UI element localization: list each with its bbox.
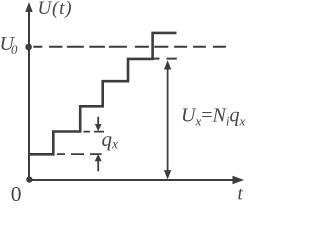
x-axis arrowhead xyxy=(233,176,245,185)
q_x upper arrow (points down to step2 level) xyxy=(95,117,102,132)
y-axis xyxy=(28,9,30,180)
staircase waveform xyxy=(29,33,177,154)
svg-text:Ux=Niqx: Ux=Niqx xyxy=(181,104,245,128)
x-axis xyxy=(29,179,235,181)
U0 dashed level line xyxy=(33,46,226,48)
svg-text:t: t xyxy=(238,184,244,203)
q_x lower arrow (points up to step1 level) xyxy=(95,154,102,171)
U_x big double arrow xyxy=(164,60,171,179)
U0 dot on y-axis xyxy=(25,44,32,51)
y-axis arrowhead xyxy=(25,2,32,12)
dashed extension of step1 level xyxy=(57,153,102,155)
svg-text:0: 0 xyxy=(11,182,22,202)
dashed stub at step5 level xyxy=(153,58,177,60)
dashed extension of step2 level xyxy=(84,131,105,133)
origin dot xyxy=(26,177,32,183)
svg-text:U(t): U(t) xyxy=(38,0,73,19)
